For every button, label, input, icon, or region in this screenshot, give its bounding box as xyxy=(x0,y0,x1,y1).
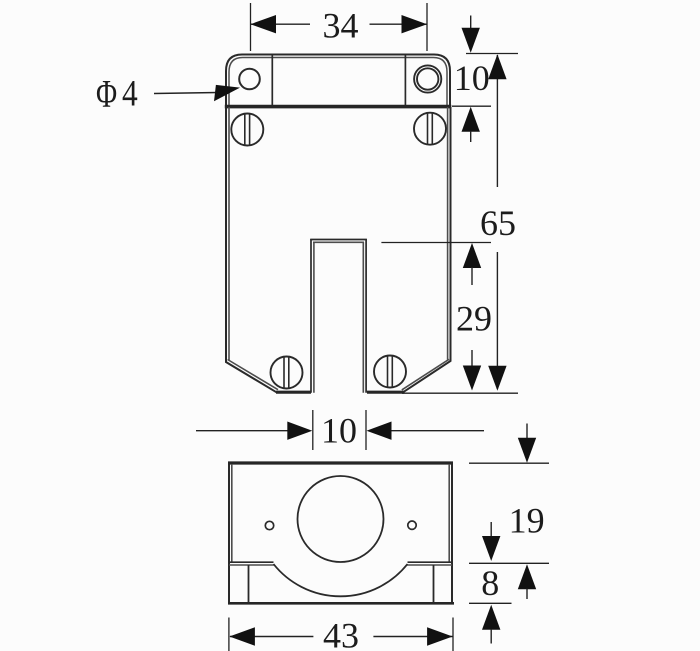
notch right edge double line xyxy=(365,239,367,393)
dimension 8 extension bottom xyxy=(469,602,512,604)
dimension 43 extension left xyxy=(228,618,230,651)
clamp strip top line left segment xyxy=(229,561,274,563)
dimension 10 flange extension top xyxy=(466,53,518,55)
dimension 8 bottom arrow xyxy=(482,605,500,630)
dimension 10 flange bottom arrow xyxy=(462,107,480,132)
svg-text:43: 43 xyxy=(323,615,359,651)
clamp tab divider right xyxy=(433,565,435,603)
dimension 19 bottom arrow xyxy=(518,564,536,589)
phi4 leader line xyxy=(154,93,218,94)
small hole left xyxy=(265,521,273,529)
screw top-right xyxy=(414,113,446,145)
dimension 34 extension line left xyxy=(250,3,252,51)
dimension 10 notch extension right xyxy=(365,410,367,450)
bottom view top edge thick xyxy=(228,461,453,464)
clamp groove arc xyxy=(274,564,408,596)
dimension 43 arrow right xyxy=(427,627,453,645)
dimension 19 extension top xyxy=(469,462,549,464)
small hole right xyxy=(408,521,416,529)
dimension 43 arrow left xyxy=(229,627,255,645)
dimension 65 bottom arrow xyxy=(488,366,506,391)
right mounting hole inner circle xyxy=(417,68,438,89)
dimension 10 notch extension left xyxy=(312,410,314,450)
screw bottom-left xyxy=(271,357,303,389)
dimension 43 extension right xyxy=(452,618,454,651)
top mounting flange inner contour line xyxy=(229,58,447,108)
svg-text:19: 19 xyxy=(509,500,545,540)
body bottom edge right segment xyxy=(367,391,404,394)
dimension 65/29 extension bottom xyxy=(402,392,518,394)
svg-text:65: 65 xyxy=(480,203,516,243)
body inner contour right chamfer xyxy=(402,359,449,390)
left mounting hole xyxy=(239,69,260,90)
flange left divider line xyxy=(271,55,273,105)
large bore circle xyxy=(298,476,384,562)
clamp tab divider left xyxy=(248,565,250,603)
svg-text:8: 8 xyxy=(481,563,499,603)
body inner contour right xyxy=(447,107,449,360)
svg-text:Φ: Φ xyxy=(96,72,117,115)
dimension 10 flange extension bottom xyxy=(452,105,491,107)
bottom view bottom edge xyxy=(228,602,454,605)
top mounting flange outer outline xyxy=(226,55,450,108)
svg-text:29: 29 xyxy=(456,298,492,338)
dimension 10 flange top arrow xyxy=(470,16,472,30)
body outer outline xyxy=(226,107,451,392)
dimension 10 notch left line and arrow xyxy=(196,430,288,432)
phi4 leader arrow xyxy=(214,85,240,101)
right mounting hole outer circle xyxy=(414,65,441,92)
notch top edge double line xyxy=(310,239,367,241)
dimension 65 line lower segment xyxy=(496,252,498,389)
clamp strip top line right segment xyxy=(408,561,453,563)
svg-text:10: 10 xyxy=(454,58,490,98)
dimension 19 top arrow xyxy=(526,424,528,439)
dimension 34 extension line right xyxy=(426,3,428,51)
dimension 43 line right segment xyxy=(373,636,452,638)
dimension 8 top arrow xyxy=(490,522,492,537)
dimension 29 top arrow xyxy=(463,243,481,268)
dimension 29 bottom arrow xyxy=(471,350,473,366)
flange bottom edge xyxy=(225,105,451,109)
bottom view inner contour right xyxy=(448,464,450,562)
dimension 65 top arrow xyxy=(488,54,506,79)
dimension 19 extension bottom xyxy=(469,562,549,564)
bottom view inner contour left xyxy=(231,464,233,562)
body bottom edge left segment xyxy=(276,391,311,394)
flange right divider line xyxy=(404,55,406,105)
body inner contour left xyxy=(228,107,230,361)
svg-text:10: 10 xyxy=(321,410,357,450)
dimension 34 line right segment xyxy=(370,23,428,25)
dimension 34 arrow right xyxy=(402,15,428,33)
dimension 65 line upper segment xyxy=(496,55,498,187)
dimension 10 notch right line and arrow xyxy=(391,430,484,432)
svg-text:34: 34 xyxy=(323,6,359,46)
body inner contour left chamfer xyxy=(228,360,278,390)
notch left edge double line xyxy=(310,239,312,393)
screw top-left xyxy=(231,114,263,146)
bottom view outer rectangle xyxy=(229,463,452,603)
dimension 29 extension top xyxy=(381,242,491,244)
dimension 34 arrow left xyxy=(251,15,277,33)
dimension 43 line left segment xyxy=(230,636,313,638)
svg-text:4: 4 xyxy=(122,73,138,114)
dimension 34 line left segment xyxy=(251,23,310,25)
screw bottom-right xyxy=(374,356,406,388)
